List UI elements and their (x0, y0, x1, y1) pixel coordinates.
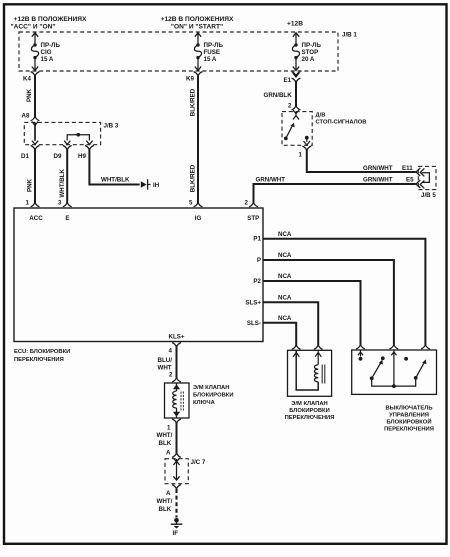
svg-text:K4: K4 (23, 76, 31, 83)
wire GRN/WHT E5 to ECU pin 2 STP (254, 177, 416, 204)
connector D9 (54, 141, 72, 160)
connector pin 2 key lock solenoid (172, 378, 181, 382)
label shift lock override switch (384, 406, 434, 433)
svg-text:IF: IF (173, 530, 179, 537)
svg-text:BLK/RED: BLK/RED (190, 164, 197, 192)
svg-text:A: A (166, 490, 171, 497)
wire NCA P to switch (263, 252, 394, 345)
svg-text:ACC: ACC (29, 215, 43, 222)
label shift lock solenoid (285, 401, 335, 421)
junction block J/B 5 (dashed) (418, 166, 436, 189)
svg-text:IH: IH (153, 182, 160, 189)
connector H9 (78, 141, 94, 160)
svg-text:STP: STP (247, 215, 259, 222)
svg-text:+12В: +12В (287, 21, 303, 28)
svg-text:"ACC" И "ON": "ACC" И "ON" (10, 24, 55, 31)
label key lock solenoid (193, 385, 234, 406)
svg-text:P1: P1 (253, 236, 261, 243)
connector K9 at J/B1 exit (186, 67, 202, 83)
connector A into J/C7 (172, 453, 181, 462)
ECU pin 3 (58, 200, 72, 207)
svg-text:P2: P2 (253, 278, 261, 285)
connector E11 chevrons (416, 168, 424, 176)
svg-text:+12В В ПОЛОЖЕНИЯХ: +12В В ПОЛОЖЕНИЯХ (161, 16, 234, 23)
svg-text:1: 1 (167, 425, 171, 432)
wire NCA SLS+ to solenoid (263, 295, 318, 346)
key lock solenoid box (165, 383, 190, 418)
switch left lever (370, 360, 383, 380)
wire WHT/BLK D9 to ECU pin 3 (59, 149, 67, 204)
svg-text:A8: A8 (22, 113, 30, 120)
net label +12V ACC/ON (10, 16, 87, 31)
wire inside J/B3 A8 to D1 (34, 122, 36, 140)
svg-text:GRN/WHT: GRN/WHT (363, 165, 393, 172)
junction connector J/C 7 (dashed) (165, 459, 188, 484)
svg-text:15 A: 15 A (204, 56, 217, 63)
svg-text:БЛОКИРОВКИ: БЛОКИРОВКИ (289, 408, 330, 414)
svg-text:ПЕРЕКЛЮЧЕНИЯ: ПЕРЕКЛЮЧЕНИЯ (285, 415, 335, 421)
svg-text:J/B 3: J/B 3 (104, 123, 119, 130)
svg-text:2: 2 (169, 372, 173, 379)
switch free contact right (404, 357, 408, 361)
connector P2 pin at override switch (356, 345, 365, 349)
svg-text:IG: IG (195, 215, 202, 222)
svg-text:15 A: 15 A (41, 56, 54, 63)
svg-text:2: 2 (245, 200, 249, 207)
connector A below J/C7 (166, 485, 181, 497)
fuse STOP 20A (292, 33, 321, 71)
shift lock solenoid internal wire (296, 350, 318, 390)
svg-text:D1: D1 (21, 153, 29, 160)
svg-text:J/B 1: J/B 1 (342, 32, 357, 39)
ECU shift lock box (14, 208, 263, 342)
stop switch lever (284, 123, 295, 141)
connector A8 into J/B3 (22, 113, 40, 126)
svg-text:ECU: БЛОКИРОВКИ: ECU: БЛОКИРОВКИ (14, 349, 70, 355)
svg-text:E1: E1 (284, 77, 292, 84)
svg-text:E: E (65, 215, 69, 222)
svg-text:SLS+: SLS+ (245, 300, 261, 307)
junction block J/B 3 (dashed) (24, 122, 100, 144)
svg-text:H9: H9 (78, 153, 86, 160)
svg-text:УПРАВЛЕНИЯ: УПРАВЛЕНИЯ (389, 413, 429, 419)
wire NCA P1 to switch (263, 231, 425, 345)
svg-text:FUSE: FUSE (204, 49, 221, 56)
label ECU shift lock (14, 349, 70, 363)
net label +12V ON/START (161, 16, 234, 31)
switch bar (372, 378, 416, 386)
svg-text:K9: K9 (186, 76, 194, 83)
wire GRN/WHT stop switch to E11 (307, 150, 416, 172)
stop light switch (dashed box) (282, 112, 312, 146)
svg-text:E5: E5 (406, 177, 414, 184)
svg-text:NCA: NCA (278, 295, 292, 302)
svg-text:BLK/RED: BLK/RED (190, 88, 197, 116)
svg-text:3: 3 (58, 200, 62, 207)
shift lock override switch box (352, 350, 437, 394)
wire PNK D1 to ECU pin 1 (27, 149, 36, 204)
svg-text:ВЫКЛЮЧАТЕЛЬ: ВЫКЛЮЧАТЕЛЬ (386, 406, 433, 412)
shift lock solenoid box (288, 350, 332, 396)
svg-text:NCA: NCA (278, 252, 292, 259)
junction block J/B 1 (dashed) (19, 32, 338, 71)
svg-text:PNK: PNK (27, 178, 34, 192)
svg-text:5: 5 (189, 200, 193, 207)
connector pin 2 of stop light switch (288, 103, 300, 114)
wire WHT/BLK H9 to connector IH (89, 149, 139, 185)
label stop light switch (316, 113, 367, 126)
connector SLS+ pin at shift lock solenoid (314, 345, 323, 357)
svg-text:CIG: CIG (41, 49, 52, 56)
svg-text:BLK: BLK (159, 506, 172, 513)
wire PNK K4 to A8 (26, 75, 35, 119)
svg-text:WHT/BLK: WHT/BLK (59, 169, 66, 198)
ground IF (171, 518, 183, 537)
svg-text:GRN/WHT: GRN/WHT (256, 177, 286, 184)
fuse FUSE 15A (194, 33, 223, 71)
svg-text:BLK: BLK (159, 440, 172, 447)
svg-text:WHT/: WHT/ (157, 498, 173, 505)
svg-text:D9: D9 (54, 153, 62, 160)
wire BLU/WHT KLS+ to key lock solenoid (158, 346, 177, 379)
stop switch contact to pin 1 (304, 136, 310, 145)
key lock solenoid coil (173, 383, 184, 418)
fuse CIG 15A (31, 33, 60, 71)
svg-text:1: 1 (299, 152, 303, 159)
svg-text:+12В В ПОЛОЖЕНИЯХ: +12В В ПОЛОЖЕНИЯХ (14, 16, 87, 23)
svg-text:GRN/WHT: GRN/WHT (363, 177, 393, 184)
svg-text:P: P (257, 257, 261, 264)
svg-text:J/C 7: J/C 7 (191, 459, 206, 466)
connector D1 (21, 141, 39, 160)
svg-text:БЛОКИРОВКОЙ: БЛОКИРОВКОЙ (386, 418, 431, 426)
svg-text:BLU/: BLU/ (158, 357, 173, 364)
wire GRN/BLK E1 to stop switch (264, 81, 297, 108)
svg-text:WHT/: WHT/ (157, 432, 173, 439)
svg-text:J/B 5: J/B 5 (421, 192, 436, 199)
svg-text:Э/М КЛАПАН: Э/М КЛАПАН (193, 385, 229, 391)
connector E5 chevrons (416, 180, 424, 188)
svg-text:NCA: NCA (278, 273, 292, 280)
connector pin 1 key lock solenoid (172, 419, 181, 423)
svg-text:NCA: NCA (278, 315, 292, 322)
connector K4 at J/B1 exit (23, 67, 39, 83)
stop switch fixed contact pin2 (293, 112, 299, 120)
svg-text:"ON" И "START": "ON" И "START" (171, 24, 223, 31)
svg-text:Д/В: Д/В (316, 113, 326, 119)
wire NCA P2 to switch (263, 273, 361, 345)
connector E1 at J/B1 exit (double) (284, 67, 301, 85)
ECU pin 5 (189, 200, 202, 207)
ECU pin 1 (26, 200, 40, 207)
wire inside J/B5 E11 to E5 (422, 173, 430, 183)
switch free contact left (381, 356, 385, 360)
switch right lever (414, 359, 427, 379)
svg-text:PNK: PNK (26, 88, 33, 102)
svg-text:KLS+: KLS+ (169, 334, 185, 341)
wire WHT/BLK dashed to ground (157, 489, 177, 518)
svg-text:КЛЮЧА: КЛЮЧА (193, 400, 216, 406)
svg-text:GRN/BLK: GRN/BLK (264, 92, 293, 99)
svg-text:WHT: WHT (158, 365, 172, 372)
connector P1 pin at override switch (421, 345, 430, 349)
svg-text:NCA: NCA (278, 231, 292, 238)
wire inside J/C7 (173, 459, 179, 480)
svg-text:ПР-ЛЬ: ПР-ЛЬ (204, 42, 224, 49)
svg-text:4: 4 (169, 348, 173, 355)
svg-text:ПР-ЛЬ: ПР-ЛЬ (302, 42, 322, 49)
svg-text:2: 2 (288, 103, 292, 110)
svg-text:STOP: STOP (302, 49, 319, 56)
svg-text:1: 1 (26, 200, 30, 207)
switch contact P2 (358, 350, 363, 361)
internal bus D9-H9 with junction dot (67, 133, 89, 141)
wire BLK/RED K9 to ECU pin 5 (190, 75, 199, 204)
svg-text:Э/М КЛАПАН: Э/М КЛАПАН (291, 401, 327, 407)
svg-text:A: A (166, 450, 171, 457)
svg-text:ПР-ЛЬ: ПР-ЛЬ (41, 42, 61, 49)
svg-text:СТОП-СИГНАЛОВ: СТОП-СИГНАЛОВ (316, 120, 367, 126)
connector IH (141, 179, 160, 189)
svg-text:SLS-: SLS- (247, 320, 261, 327)
wire NCA SLS- to solenoid (263, 315, 296, 346)
svg-text:E11: E11 (402, 165, 413, 172)
ECU pin KLS+ (169, 334, 185, 347)
wire WHT/BLK to J/C 7 (157, 423, 177, 457)
ECU pin 2 (245, 200, 258, 207)
svg-text:БЛОКИРОВКИ: БЛОКИРОВКИ (193, 393, 234, 399)
svg-text:WHT/BLK: WHT/BLK (101, 177, 130, 184)
shift lock solenoid coil (314, 350, 324, 383)
switch pole P wire and junction (391, 350, 396, 388)
svg-text:ПЕРЕКЛЮЧЕНИЯ: ПЕРЕКЛЮЧЕНИЯ (14, 357, 64, 363)
svg-text:20 A: 20 A (302, 56, 315, 63)
connector pin 1 of stop light switch (299, 146, 312, 158)
svg-text:ПЕРЕКЛЮЧЕНИЯ: ПЕРЕКЛЮЧЕНИЯ (384, 427, 434, 433)
connector SLS- pin at shift lock solenoid (292, 345, 301, 357)
connector P pin at override switch (390, 345, 399, 349)
